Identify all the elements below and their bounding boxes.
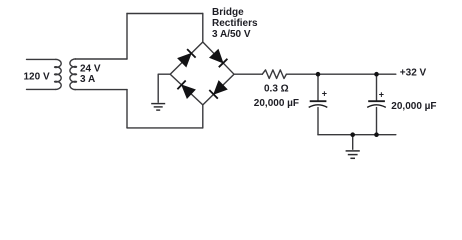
diode D2 (top node to right node) — [210, 50, 227, 67]
svg-text:Rectifiers: Rectifiers — [212, 18, 258, 29]
diode D4 (right node to bottom node) — [209, 81, 227, 99]
capacitor C2 bottom stem — [376, 108, 378, 135]
wire: top-left riser — [126, 14, 128, 60]
wire: secondary top lead to riser — [75, 58, 127, 60]
svg-text:Bridge: Bridge — [212, 7, 244, 18]
svg-text:+: + — [379, 89, 384, 99]
transformer T1 secondary winding — [70, 59, 77, 90]
wire: bottom rail to bridge — [127, 127, 203, 129]
wire: stub up to bridge bottom node — [202, 105, 204, 128]
capacitor C2 top stem — [376, 74, 378, 101]
junction node: bottom rail / ground — [350, 132, 355, 137]
svg-text:20,000 µF: 20,000 µF — [254, 98, 299, 109]
svg-text:0.3 Ω: 0.3 Ω — [264, 83, 289, 94]
ground (filter capacitors) — [346, 135, 360, 159]
svg-text:+32 V: +32 V — [400, 68, 427, 79]
svg-text:20,000 µF: 20,000 µF — [391, 101, 436, 112]
svg-text:3 A: 3 A — [80, 74, 95, 85]
diode D1 (left node to top node) — [178, 49, 196, 66]
svg-text:24 V: 24 V — [80, 64, 101, 75]
junction node: rail / C1 — [316, 72, 321, 77]
wire: resistor to +32V output — [286, 73, 395, 75]
svg-text:3 A/50 V: 3 A/50 V — [212, 29, 251, 40]
wire: right node to resistor — [234, 73, 262, 75]
wire: primary top lead — [27, 58, 56, 60]
ground (bridge left node) — [151, 104, 165, 111]
wire: left node to ground — [158, 74, 170, 102]
svg-text:+: + — [322, 89, 327, 99]
wire: stub down to bridge top node — [202, 14, 204, 43]
capacitor C1 top stem — [317, 74, 319, 101]
resistor 0.3 ohm zigzag — [262, 70, 286, 79]
junction node: bottom rail / C2 — [374, 132, 379, 137]
capacitor C1 bottom stem — [317, 108, 319, 135]
diode D3 (bottom node to left node) — [177, 81, 195, 99]
wire: bottom-left riser — [126, 90, 128, 128]
capacitor C2 plates — [367, 101, 386, 107]
wire: secondary bottom lead — [75, 89, 127, 91]
transformer T1 primary winding — [55, 59, 62, 89]
capacitor C1 plates — [309, 101, 328, 107]
junction node: rail / C2 — [374, 72, 379, 77]
wire: primary bottom lead — [27, 88, 56, 90]
bridge diamond edges — [170, 42, 234, 105]
svg-text:120 V: 120 V — [24, 71, 50, 82]
wire: top rail to bridge — [127, 13, 203, 15]
wire: capacitor bottom rail — [318, 134, 396, 136]
